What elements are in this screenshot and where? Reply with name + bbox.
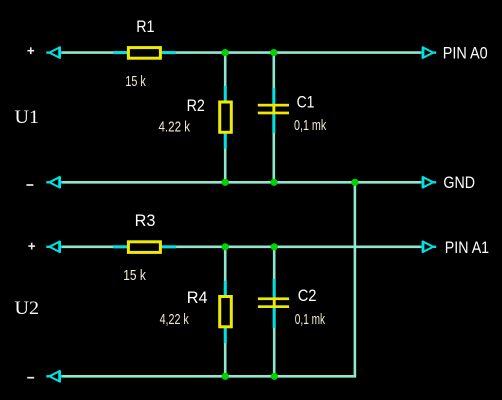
wire R2 branch vertical <box>224 53 227 183</box>
svg-text:4,22 k: 4,22 k <box>160 311 190 328</box>
port arrow left row4 <box>46 370 62 382</box>
svg-text:PIN A1: PIN A1 <box>445 238 489 257</box>
svg-text:0,1 mk: 0,1 mk <box>294 117 327 134</box>
wire net GND (row 2) <box>62 181 421 184</box>
junction row3 left <box>222 243 229 250</box>
resistor R3 <box>113 242 176 253</box>
svg-text:C1: C1 <box>297 93 315 112</box>
svg-text:R1: R1 <box>136 17 154 36</box>
wire net PIN A0 (row 1) <box>62 51 421 54</box>
svg-text:4.22 k: 4.22 k <box>159 119 191 136</box>
wire C1 branch vertical upper <box>272 53 275 105</box>
svg-text:15 k: 15 k <box>125 73 146 90</box>
resistor R2 <box>220 86 232 149</box>
polarity + (U2) <box>28 243 35 250</box>
junction row1 left <box>222 49 229 56</box>
capacitor C2 <box>258 279 289 328</box>
junction row4 left <box>222 373 229 380</box>
polarity - (U2) <box>27 377 34 379</box>
polarity + (U1) <box>27 47 34 54</box>
polarity - (U1) <box>26 184 33 186</box>
wire bottom net with corner riser to GND (row 4) <box>62 182 355 376</box>
junction row2 left <box>222 179 229 186</box>
wire C1 branch vertical lower <box>272 114 275 183</box>
junction row4 right <box>271 373 278 380</box>
junction row2 right <box>351 179 358 186</box>
capacitor C1 <box>258 88 289 133</box>
port arrow left row2 <box>46 176 62 188</box>
svg-text:U1: U1 <box>15 107 40 128</box>
svg-text:R4: R4 <box>187 288 208 307</box>
port arrow right PIN A1 <box>421 241 437 253</box>
wire net PIN A1 (row 3) <box>62 246 421 249</box>
wire R4 branch vertical <box>224 247 227 376</box>
wire C2 branch vertical lower <box>273 307 276 376</box>
port arrow right GND <box>421 176 437 188</box>
svg-text:0,1 mk: 0,1 mk <box>295 311 326 328</box>
svg-text:GND: GND <box>443 173 475 192</box>
svg-text:U2: U2 <box>15 298 40 319</box>
svg-text:R2: R2 <box>187 96 205 115</box>
junction row3 right <box>271 243 278 250</box>
svg-text:PIN A0: PIN A0 <box>443 43 488 62</box>
port arrow left row3 <box>46 241 62 253</box>
resistor R1 <box>113 48 176 59</box>
junction row2 mid <box>270 179 277 186</box>
port arrow right PIN A0 <box>421 47 437 59</box>
junction row1 right <box>270 49 277 56</box>
svg-text:R3: R3 <box>135 211 156 230</box>
port arrow left row1 <box>46 47 62 59</box>
wire C2 branch vertical upper <box>273 247 276 298</box>
svg-text:C2: C2 <box>298 286 317 305</box>
resistor R4 <box>220 281 232 343</box>
svg-text:15 k: 15 k <box>123 267 146 284</box>
